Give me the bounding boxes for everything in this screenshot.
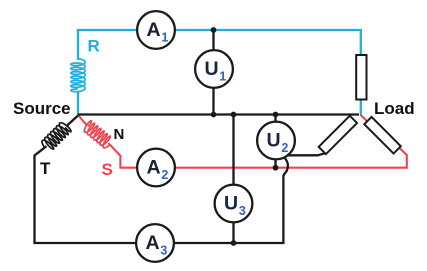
svg-text:N: N bbox=[114, 126, 125, 143]
svg-text:Source: Source bbox=[13, 99, 71, 118]
svg-text:T: T bbox=[40, 159, 51, 178]
svg-text:S: S bbox=[102, 160, 113, 179]
svg-text:Load: Load bbox=[374, 99, 415, 118]
svg-text:R: R bbox=[88, 37, 100, 56]
